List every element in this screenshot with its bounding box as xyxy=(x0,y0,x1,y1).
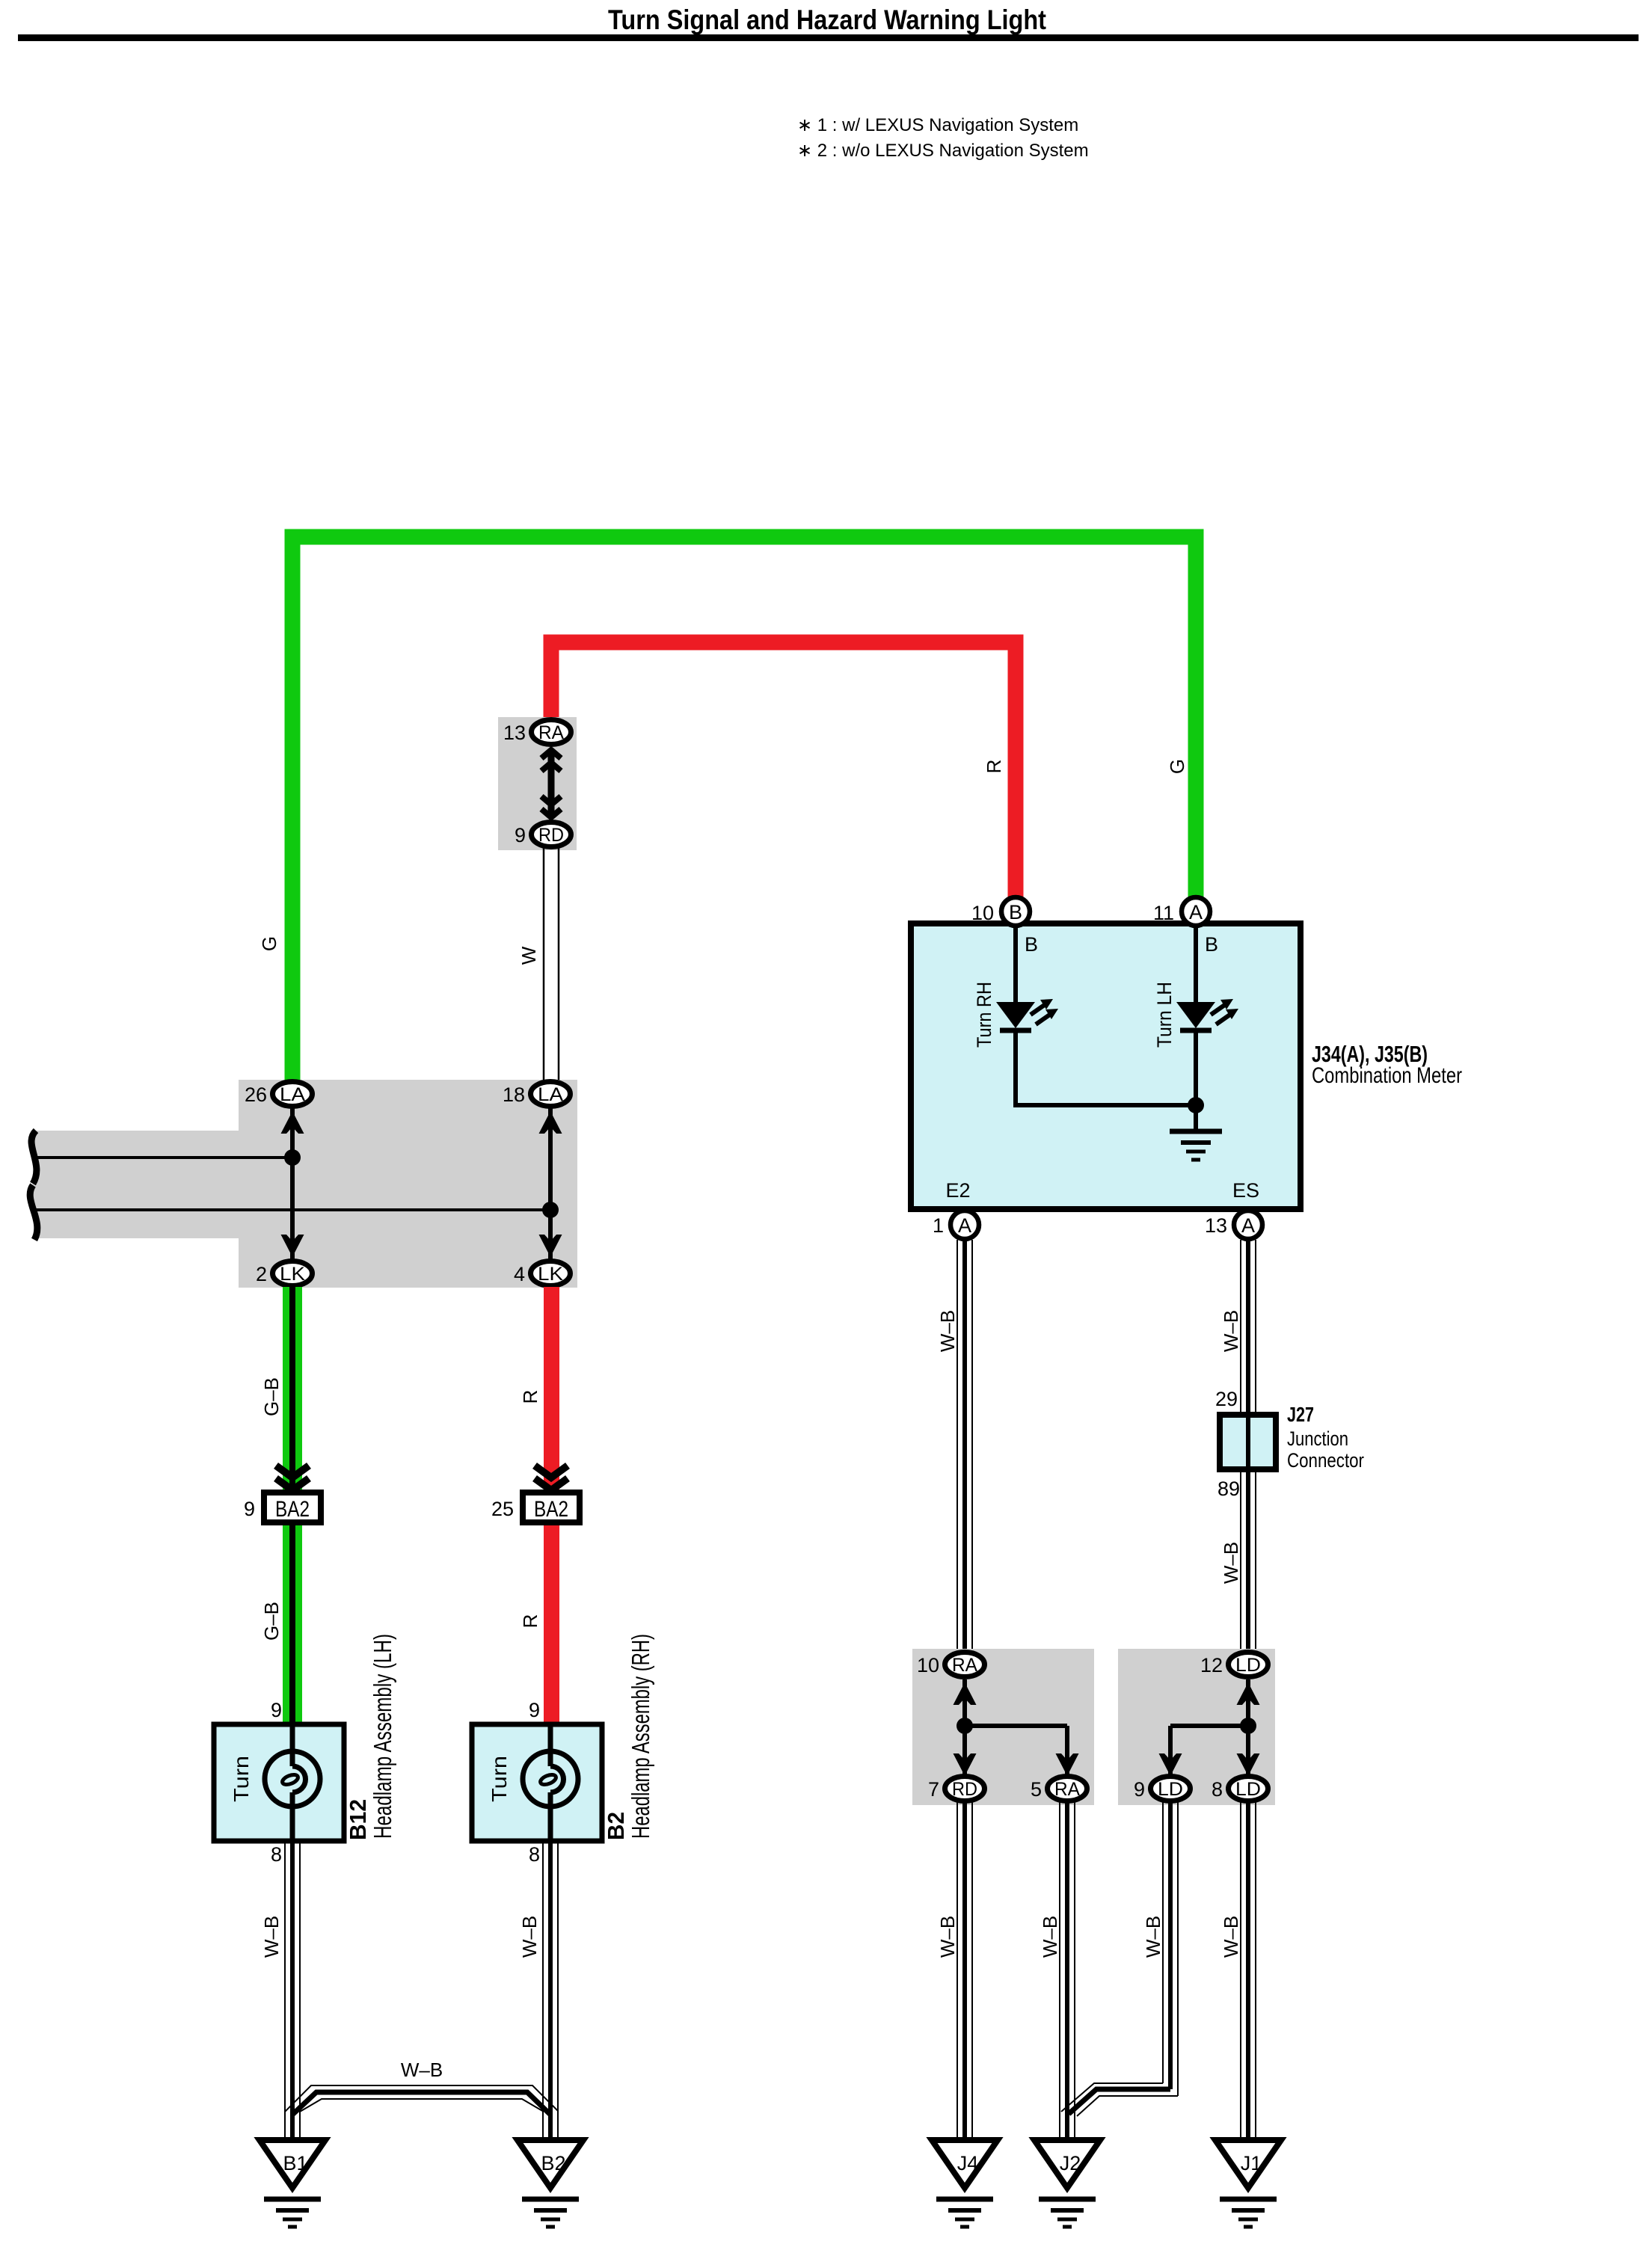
svg-text:RA: RA xyxy=(538,722,564,743)
grey harness trunk to other systems xyxy=(30,1131,239,1238)
W-B link wire between B1 and B2 grounds xyxy=(285,2085,558,2115)
meter pin 11 A xyxy=(1182,897,1210,926)
meter pin 1 A (E2) xyxy=(951,1211,979,1239)
svg-text:9: 9 xyxy=(271,1699,282,1721)
meter internal ground symbol xyxy=(1170,1131,1222,1160)
svg-text:∗ 1 : w/ LEXUS Navigation Syst: ∗ 1 : w/ LEXUS Navigation System xyxy=(797,115,1078,135)
connector LA pin 18 xyxy=(531,1082,571,1107)
connector RD pin 7 xyxy=(945,1777,985,1801)
svg-text:W: W xyxy=(518,946,540,965)
svg-text:W–B: W–B xyxy=(936,1310,959,1352)
ground B1 xyxy=(260,2140,325,2227)
grey connector box RA/RD/RA lower xyxy=(912,1649,1094,1805)
svg-text:26: 26 xyxy=(245,1083,267,1106)
svg-text:9: 9 xyxy=(244,1498,255,1520)
wire W-B from headlamp RH to ground B2 xyxy=(542,1841,544,2140)
svg-text:10: 10 xyxy=(971,902,994,924)
title rule xyxy=(18,34,1639,41)
svg-text:B2: B2 xyxy=(603,1812,629,1840)
svg-text:11: 11 xyxy=(1153,902,1174,924)
junction dot at meter ground node xyxy=(1188,1097,1204,1113)
svg-text:J27: J27 xyxy=(1287,1403,1314,1426)
wire-to-wire arrow above BA2-9 xyxy=(276,1466,309,1478)
svg-text:Connector: Connector xyxy=(1287,1449,1364,1472)
svg-text:LK: LK xyxy=(280,1264,305,1285)
meter wire RH LED to common ground node xyxy=(1016,1028,1196,1105)
svg-text:LK: LK xyxy=(538,1264,563,1285)
connector LD pin 12 xyxy=(1229,1653,1268,1677)
svg-text:1: 1 xyxy=(933,1214,944,1237)
connector LK pin 2 xyxy=(273,1261,313,1286)
connector LD pin 8 xyxy=(1229,1777,1268,1801)
svg-text:7: 7 xyxy=(928,1778,939,1801)
arrow above LK-2 xyxy=(281,1235,304,1257)
connector LD pin 9 xyxy=(1151,1777,1191,1801)
meter pin 13 A (ES) xyxy=(1234,1211,1262,1239)
svg-text:W–B: W–B xyxy=(401,2059,443,2081)
svg-text:R: R xyxy=(519,1614,541,1629)
wire W-B from meter ES pin 13A down to LD-12 xyxy=(1240,1240,1241,1651)
junction dot at LA-18 branch xyxy=(542,1202,559,1218)
arrow above RA-5 xyxy=(1056,1753,1079,1776)
svg-text:9: 9 xyxy=(515,824,526,846)
grey connector box LA/LK xyxy=(239,1080,577,1288)
svg-text:R: R xyxy=(519,1390,541,1404)
LED Turn RH xyxy=(996,999,1058,1030)
ground J4 xyxy=(932,2140,998,2227)
svg-text:Headlamp Assembly (RH): Headlamp Assembly (RH) xyxy=(627,1634,654,1839)
ground J1 xyxy=(1215,2140,1281,2227)
wire W-B from headlamp LH to ground B1 xyxy=(284,1841,286,2140)
svg-text:Turn: Turn xyxy=(488,1756,511,1802)
junction box BA2 pin 9 xyxy=(264,1493,321,1522)
wire W-B from LD-9 joining ground J2 xyxy=(1061,1802,1178,2116)
junction dot RA box xyxy=(956,1718,973,1734)
svg-text:LD: LD xyxy=(1235,1655,1261,1676)
svg-text:12: 12 xyxy=(1200,1654,1223,1676)
connector LA pin 26 xyxy=(273,1082,313,1107)
headlamp assembly box B2 xyxy=(472,1724,602,1841)
svg-text:8: 8 xyxy=(529,1843,540,1866)
wire W-B from RA-5 to ground J2 xyxy=(1059,1802,1060,2140)
svg-text:W–B: W–B xyxy=(1039,1916,1061,1958)
arrow below RA-10 xyxy=(954,1682,977,1705)
connector RA pin 13 xyxy=(532,720,571,745)
meter pin 10 B xyxy=(1001,897,1030,926)
LED Turn LH xyxy=(1176,999,1238,1030)
meter wire LH LED down to ground node xyxy=(1194,1028,1198,1131)
arrow above LD-9 xyxy=(1159,1753,1182,1776)
svg-text:RD: RD xyxy=(952,1779,977,1800)
svg-text:Turn RH: Turn RH xyxy=(973,982,995,1048)
svg-text:RA: RA xyxy=(952,1655,977,1676)
svg-text:BA2: BA2 xyxy=(534,1497,568,1522)
svg-text:Headlamp Assembly (LH): Headlamp Assembly (LH) xyxy=(369,1634,396,1839)
svg-text:RA: RA xyxy=(1054,1779,1080,1800)
ground B2 xyxy=(518,2140,583,2227)
wire G (green) from connector LA-26 up and across to combination meter pin 11A xyxy=(292,537,1196,1081)
svg-text:W–B: W–B xyxy=(1142,1916,1164,1958)
svg-text:G: G xyxy=(258,936,280,951)
grey connector box LD lower xyxy=(1118,1649,1275,1805)
wire W-B from meter E2 pin 1A down to RA-10 xyxy=(956,1240,958,1651)
svg-text:Turn: Turn xyxy=(230,1756,253,1802)
wire R (red) from connector RA-13 up and across to combination meter pin 10B xyxy=(551,642,1016,906)
svg-text:B12: B12 xyxy=(345,1799,371,1840)
wire-to-wire arrow between RA-13 and RD-9 xyxy=(541,750,561,817)
svg-text:J4: J4 xyxy=(957,2152,979,2174)
svg-text:9: 9 xyxy=(1134,1778,1145,1801)
wire W (white) from RD-9 down to LA-18 xyxy=(544,848,559,1082)
svg-text:Turn Signal and Hazard Warning: Turn Signal and Hazard Warning Light xyxy=(608,4,1046,35)
arrow above LK-4 xyxy=(539,1235,562,1257)
wire-to-wire arrow above BA2-25 xyxy=(535,1466,568,1478)
wires inside LD box xyxy=(1170,1679,1248,1775)
svg-text:W–B: W–B xyxy=(518,1916,541,1958)
combination meter box J34/J35 xyxy=(911,923,1301,1209)
lamp bulb symbol in B2 xyxy=(523,1724,578,1841)
svg-text:ES: ES xyxy=(1232,1179,1259,1202)
lamp bulb symbol in B12 xyxy=(265,1724,320,1841)
svg-text:G–B: G–B xyxy=(260,1602,283,1641)
svg-text:W–B: W–B xyxy=(1220,1916,1242,1958)
svg-text:B2: B2 xyxy=(541,2152,565,2174)
meter internal wire from 11A to Turn LH LED xyxy=(1194,923,1198,1004)
svg-text:J2: J2 xyxy=(1060,2152,1081,2174)
connector RA pin 5 xyxy=(1048,1777,1087,1801)
svg-text:E2: E2 xyxy=(945,1179,970,1202)
svg-text:W–B: W–B xyxy=(260,1916,283,1958)
junction connector J27 box xyxy=(1220,1415,1276,1469)
svg-text:W–B: W–B xyxy=(1220,1542,1242,1584)
arrow below LA-26 xyxy=(281,1111,304,1134)
svg-text:13: 13 xyxy=(503,722,526,744)
junction box BA2 pin 25 xyxy=(523,1493,580,1522)
svg-text:A: A xyxy=(1241,1214,1255,1237)
junction dot LD box xyxy=(1240,1718,1256,1734)
svg-text:LA: LA xyxy=(538,1084,563,1105)
arrow below LD-12 xyxy=(1237,1682,1260,1705)
wire W-B from RD-7 to ground J4 xyxy=(956,1802,958,2140)
svg-text:LD: LD xyxy=(1235,1779,1261,1800)
svg-text:89: 89 xyxy=(1217,1478,1240,1500)
svg-text:RD: RD xyxy=(538,825,564,846)
svg-text:LD: LD xyxy=(1158,1779,1183,1800)
wire LA-18 to LK-4 xyxy=(548,1094,553,1273)
svg-text:B1: B1 xyxy=(283,2152,307,2174)
svg-text:25: 25 xyxy=(491,1498,514,1520)
svg-text:5: 5 xyxy=(1031,1778,1042,1801)
svg-text:8: 8 xyxy=(271,1843,282,1866)
svg-text:10: 10 xyxy=(917,1654,939,1676)
svg-text:Combination Meter: Combination Meter xyxy=(1312,1063,1462,1088)
svg-text:R: R xyxy=(983,760,1005,774)
svg-text:BA2: BA2 xyxy=(275,1497,310,1522)
svg-text:W–B: W–B xyxy=(936,1916,959,1958)
wires inside RA/RD box xyxy=(965,1679,1067,1775)
svg-text:29: 29 xyxy=(1215,1388,1238,1410)
svg-text:B: B xyxy=(1009,901,1022,923)
svg-text:8: 8 xyxy=(1212,1778,1223,1801)
svg-text:Junction: Junction xyxy=(1287,1427,1348,1450)
arrow above LD-8 xyxy=(1237,1753,1260,1776)
connector RD pin 9 xyxy=(532,823,571,847)
svg-text:A: A xyxy=(958,1214,971,1237)
svg-text:B: B xyxy=(1205,933,1218,956)
grey connector box RA/RD xyxy=(498,717,577,850)
meter internal wire from 10B to Turn RH LED xyxy=(1013,923,1018,1004)
svg-text:LA: LA xyxy=(280,1084,305,1105)
svg-text:W–B: W–B xyxy=(1220,1310,1242,1352)
svg-text:2: 2 xyxy=(256,1263,267,1285)
wire G-B (green-black) from LK-2 to headlamp LH xyxy=(283,1287,302,1724)
svg-text:∗ 2 : w/o LEXUS Navigation Sys: ∗ 2 : w/o LEXUS Navigation System xyxy=(797,141,1089,161)
junction dot at LA-26 branch xyxy=(284,1149,301,1166)
svg-text:G–B: G–B xyxy=(260,1377,283,1416)
headlamp assembly box B12 xyxy=(214,1724,344,1841)
wire R (red) from LK-4 to headlamp RH xyxy=(544,1287,559,1724)
svg-text:18: 18 xyxy=(503,1083,525,1106)
harness wire into trunk lower xyxy=(36,1208,550,1211)
svg-text:G: G xyxy=(1166,759,1188,774)
wire LA-26 to LK-2 xyxy=(290,1094,295,1273)
svg-text:9: 9 xyxy=(529,1699,540,1721)
svg-text:B: B xyxy=(1025,933,1038,956)
svg-text:A: A xyxy=(1189,901,1203,923)
connector LK pin 4 xyxy=(531,1261,571,1286)
wire W-B from LD-8 to ground J1 xyxy=(1240,1802,1241,2140)
harness wire into trunk upper xyxy=(36,1156,292,1159)
ground J2 xyxy=(1034,2140,1100,2227)
connector RA pin 10 xyxy=(945,1653,985,1677)
arrow below LA-18 xyxy=(539,1111,562,1134)
svg-text:13: 13 xyxy=(1205,1214,1227,1237)
svg-text:4: 4 xyxy=(514,1263,525,1285)
svg-text:Turn LH: Turn LH xyxy=(1153,982,1176,1048)
svg-text:J1: J1 xyxy=(1241,2152,1262,2174)
arrow above RD-7 xyxy=(954,1753,977,1776)
